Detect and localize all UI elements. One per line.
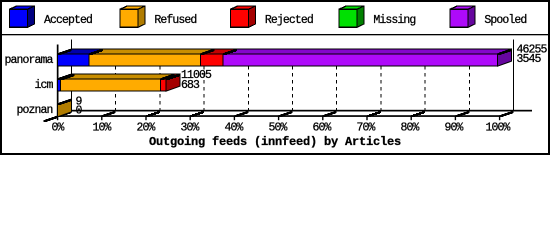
svg-text:80%: 80% bbox=[401, 122, 420, 135]
gridline 30% dashed bbox=[203, 49, 205, 111]
gridline 90% dashed bbox=[468, 49, 470, 111]
top face refused bbox=[61, 74, 175, 79]
tick 80% bbox=[411, 112, 426, 120]
gridline 50% dashed bbox=[292, 49, 294, 111]
stair edges panorama bbox=[58, 50, 512, 54]
gridline 100% solid bbox=[513, 40, 515, 111]
front refused bbox=[61, 79, 161, 91]
tick 90% bbox=[455, 112, 470, 120]
tick 30% bbox=[190, 112, 205, 120]
legend cube Rejected bbox=[231, 6, 256, 27]
svg-text:3545: 3545 bbox=[517, 53, 542, 66]
svg-text:Outgoing feeds (innfeed) by Ar: Outgoing feeds (innfeed) by Articles bbox=[149, 135, 401, 149]
svg-text:100%: 100% bbox=[486, 122, 511, 135]
tick 50% bbox=[278, 112, 293, 120]
svg-text:Refused: Refused bbox=[154, 14, 196, 27]
gridlines (back plane) bbox=[72, 40, 514, 111]
svg-text:0%: 0% bbox=[52, 122, 65, 135]
svg-text:20%: 20% bbox=[137, 122, 156, 135]
tick 20% bbox=[145, 112, 160, 120]
svg-text:683: 683 bbox=[181, 79, 200, 92]
gridline 80% dashed bbox=[424, 49, 426, 111]
stair edges icm bbox=[58, 75, 181, 79]
legend cube Accepted bbox=[10, 6, 35, 27]
svg-text:70%: 70% bbox=[357, 122, 376, 135]
axis ticks and depth marks bbox=[57, 112, 514, 120]
bar icm bbox=[58, 74, 181, 91]
front rejected bbox=[200, 54, 223, 66]
gridline 40% dashed bbox=[247, 49, 249, 111]
top face accepted bbox=[58, 49, 104, 54]
svg-text:90%: 90% bbox=[445, 122, 464, 135]
tick 10% bbox=[101, 112, 116, 120]
svg-text:60%: 60% bbox=[313, 122, 332, 135]
svg-text:0: 0 bbox=[76, 105, 83, 118]
front accepted bbox=[58, 79, 61, 91]
side face spooled bbox=[498, 49, 512, 66]
front refused bbox=[89, 54, 200, 66]
tick 100% bbox=[499, 112, 514, 120]
gridline 70% dashed bbox=[380, 49, 382, 111]
origin depth extension bbox=[44, 117, 58, 121]
gridline 20% dashed bbox=[159, 49, 161, 111]
front rejected bbox=[161, 79, 166, 91]
legend cube Refused bbox=[120, 6, 145, 27]
legend cube Spooled bbox=[450, 6, 475, 27]
svg-text:40%: 40% bbox=[225, 122, 244, 135]
svg-text:Spooled: Spooled bbox=[484, 14, 526, 27]
svg-text:50%: 50% bbox=[269, 122, 288, 135]
top face spooled bbox=[223, 49, 512, 54]
svg-text:Accepted: Accepted bbox=[44, 14, 92, 27]
tick 70% bbox=[366, 112, 381, 120]
svg-text:10%: 10% bbox=[93, 122, 112, 135]
gridline 10% dashed bbox=[115, 49, 117, 111]
y axis front line bbox=[57, 45, 59, 117]
svg-text:30%: 30% bbox=[181, 122, 200, 135]
top face refused bbox=[89, 49, 214, 54]
svg-text:icm: icm bbox=[35, 79, 54, 92]
gridline 0% solid bbox=[71, 40, 73, 111]
legend cube Missing bbox=[339, 6, 364, 27]
top face rejected bbox=[161, 74, 180, 79]
top face rejected bbox=[200, 49, 237, 54]
x axis front line bbox=[57, 115, 500, 117]
tick 60% bbox=[322, 112, 337, 120]
bar panorama bbox=[58, 49, 512, 66]
front accepted bbox=[58, 54, 90, 66]
svg-text:Rejected: Rejected bbox=[265, 14, 313, 27]
svg-text:panorama: panorama bbox=[5, 54, 54, 67]
svg-text:poznan: poznan bbox=[17, 104, 53, 117]
gridline 60% dashed bbox=[336, 49, 338, 111]
svg-text:Missing: Missing bbox=[373, 14, 415, 27]
x axis back line bbox=[72, 110, 533, 112]
bar poznan (zero length, side sliver only) bbox=[58, 99, 72, 117]
outer border bbox=[1, 1, 549, 154]
top face accepted bbox=[58, 74, 75, 79]
legend separator line bbox=[0, 34, 550, 35]
tick 40% bbox=[234, 112, 249, 120]
front spooled bbox=[223, 54, 498, 66]
side face rejected bbox=[166, 74, 180, 91]
tick 0% bbox=[57, 112, 72, 120]
